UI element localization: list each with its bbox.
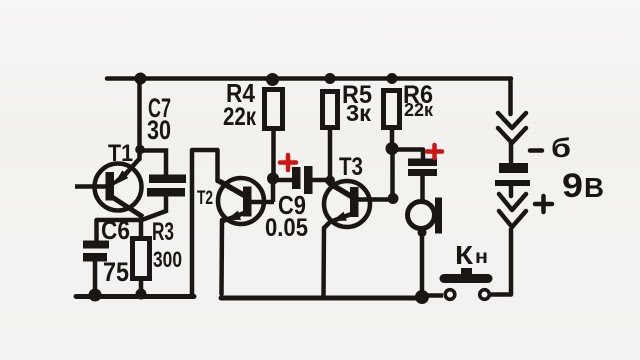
node: R6 / T3 collector / cap junction — [386, 142, 399, 155]
resistor R5 — [323, 92, 338, 128]
red plus polarity mark at C9 — [280, 155, 296, 170]
push button Kn — [444, 268, 489, 299]
earphone BF (circle with bar) — [408, 198, 443, 234]
wire: button right contact to battery line — [490, 228, 511, 295]
svg-text:75: 75 — [103, 257, 129, 287]
transistor T2 — [218, 178, 274, 224]
wire: top supply rail — [107, 76, 511, 81]
wire: junction to C9 — [273, 178, 293, 183]
wire: C6 bottom lead — [93, 260, 98, 294]
wire: jog to C7 top — [140, 151, 167, 178]
wire: C9 to T3 base — [312, 178, 332, 183]
node: collector/C7 junction blob — [135, 145, 145, 155]
battery GB with plug contacts — [495, 113, 530, 227]
svg-text:300: 300 — [153, 247, 182, 272]
wire: T3 emitter down to rail — [324, 222, 331, 296]
wire: T2 emitter down — [219, 220, 224, 294]
svg-text:T1: T1 — [108, 140, 133, 167]
wire: bottom rail left segment — [76, 294, 194, 299]
resistor R4 — [265, 90, 283, 129]
red plus polarity mark at polar capacitor — [427, 145, 442, 158]
wire: R6 bottom lead — [390, 130, 395, 148]
node: junction top rail / R5 — [325, 73, 336, 84]
contact chevron 4 — [499, 211, 526, 227]
wire: R4 bottom lead — [271, 131, 276, 177]
svg-text:б: б — [551, 133, 571, 163]
transistor T3 — [324, 181, 394, 227]
capacitor C9 plates — [292, 166, 313, 194]
wire: junction to polar capacitor — [393, 150, 423, 161]
wire: C6 top lead — [94, 220, 99, 242]
node: junction top rail / T1 collector — [135, 73, 147, 85]
contact chevron 1 — [498, 113, 526, 128]
svg-text:22к: 22к — [404, 100, 434, 120]
svg-text:30: 30 — [147, 115, 171, 145]
wire: plate to chevron — [509, 186, 514, 196]
wire: rail to button left contact — [424, 293, 443, 298]
node: R3 to ground rail — [136, 289, 147, 300]
node: junction top rail / R4 — [266, 73, 279, 86]
resistor R6 — [384, 91, 400, 128]
wire: T1 collector vertical — [137, 79, 142, 160]
transistor T1 — [75, 158, 143, 217]
contact chevron 3 — [499, 194, 526, 210]
wire: right drop to battery — [508, 79, 513, 115]
node: R4 / C9 / T2 collector junction — [267, 173, 279, 185]
capacitor C7 plates — [147, 175, 186, 197]
polar capacitor plates — [408, 159, 437, 177]
battery negative plate — [499, 163, 528, 173]
label plus terminal — [535, 196, 552, 212]
node: T3 collector junction — [388, 193, 399, 204]
svg-text:T2: T2 — [197, 187, 213, 209]
node: R5 / C9 / T3 base junction — [325, 176, 335, 186]
node: earphone to rail junction — [415, 290, 429, 304]
wire: capacitor to earphone — [420, 176, 425, 200]
wire: chevron to negative plate — [509, 142, 514, 162]
wire: bottom rail right segment — [221, 296, 425, 301]
svg-text:К: К — [455, 240, 473, 270]
label -b (battery terminal) — [530, 133, 571, 163]
node: junction top rail / R6 — [387, 73, 398, 84]
svg-text:н: н — [475, 247, 488, 268]
svg-text:T3: T3 — [339, 153, 363, 181]
wire: T3 collector vertical — [390, 149, 395, 199]
node: C6 to ground rail — [89, 289, 102, 302]
svg-text:В: В — [584, 172, 604, 203]
contact chevron 2 — [498, 128, 526, 143]
wire: R5 bottom lead to T3 base — [328, 130, 333, 180]
resistor R3 — [133, 239, 150, 279]
wire: earphone bottom lead — [420, 229, 425, 296]
svg-text:22к: 22к — [223, 103, 256, 131]
battery positive plate — [495, 180, 530, 186]
wire: C7 bottom to emitter junction — [143, 195, 166, 220]
wire: R3 bottom lead — [139, 281, 144, 294]
wire: tall loop to T2 base — [192, 150, 218, 294]
wire: R3 top lead — [139, 218, 144, 236]
svg-text:R3: R3 — [152, 218, 174, 246]
capacitor C6 plates — [83, 241, 109, 262]
svg-text:9: 9 — [562, 167, 583, 205]
svg-text:3к: 3к — [346, 100, 371, 126]
svg-text:0.05: 0.05 — [265, 214, 308, 242]
node: earphone bottom blob — [418, 228, 427, 237]
svg-text:C6: C6 — [101, 215, 130, 245]
wire: emitter junction horizontal — [97, 218, 142, 223]
